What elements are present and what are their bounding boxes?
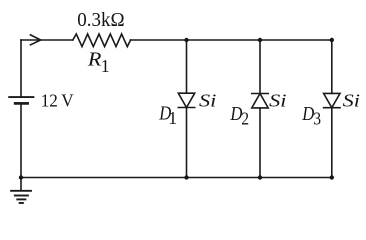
- svg-text:1: 1: [168, 108, 177, 128]
- svg-text:R: R: [87, 48, 102, 70]
- svg-text:1: 1: [101, 56, 110, 76]
- svg-text:0.3kΩ: 0.3kΩ: [77, 9, 124, 31]
- svg-text:Si: Si: [343, 91, 360, 111]
- svg-text:Si: Si: [199, 91, 216, 111]
- svg-text:12 V: 12 V: [41, 91, 74, 111]
- svg-text:Si: Si: [269, 91, 286, 111]
- svg-text:2: 2: [241, 109, 249, 129]
- svg-text:3: 3: [313, 109, 321, 129]
